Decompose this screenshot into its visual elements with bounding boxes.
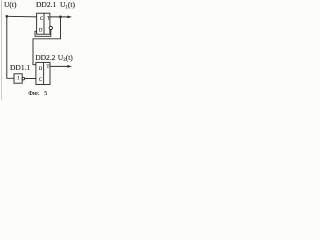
svg-text:DD2.1: DD2.1 — [36, 0, 56, 9]
node A: input junction of U(t) — [6, 15, 9, 18]
wire DD1.1 output to C input of DD2.2 — [25, 78, 36, 80]
svg-text:U(t): U(t) — [4, 0, 17, 9]
svg-text:U2(t): U2(t) — [58, 53, 74, 63]
wire U(t) down to DD1.1 input — [7, 16, 14, 78]
node B: junction on U1 line — [59, 16, 62, 19]
wire Q of DD2.1 to D input of DD2.2 — [33, 17, 61, 65]
inverse output bubble of DD2.1 — [49, 26, 52, 29]
wire U(t) to C input of DD2.1 — [7, 15, 37, 18]
inverter DD1.1 output bubble — [22, 77, 25, 80]
svg-text:DD1.1: DD1.1 — [10, 63, 30, 72]
trigger DD2.2 body — [36, 62, 50, 84]
svg-text:Фиг.: Фиг. — [28, 91, 40, 97]
svg-text:C: C — [39, 78, 42, 83]
svg-text:5: 5 — [44, 91, 47, 97]
svg-text:D: D — [39, 67, 43, 72]
inverter DD1.1 body — [14, 74, 22, 83]
arrow of U2(t) output — [67, 65, 72, 68]
trigger DD2.1 divider — [43, 13, 45, 34]
wire Q output of DD2.2 to U2(t) arrow — [50, 65, 69, 67]
wire feedback Q-bar of DD2.1 to D input of DD2.1 — [35, 30, 51, 37]
trigger DD2.1 body — [37, 13, 50, 34]
arrow of U1(t) output — [67, 15, 72, 18]
svg-text:U1(t): U1(t) — [60, 0, 76, 10]
svg-text:DD2.2: DD2.2 — [35, 53, 55, 62]
svg-text:T: T — [47, 17, 50, 22]
wire Q output of DD2.1 to U1(t) arrow — [50, 16, 69, 18]
trigger DD2.2 divider — [43, 62, 45, 84]
svg-text:D: D — [39, 29, 43, 34]
svg-text:T: T — [46, 65, 49, 70]
frame left border — [1, 0, 3, 100]
